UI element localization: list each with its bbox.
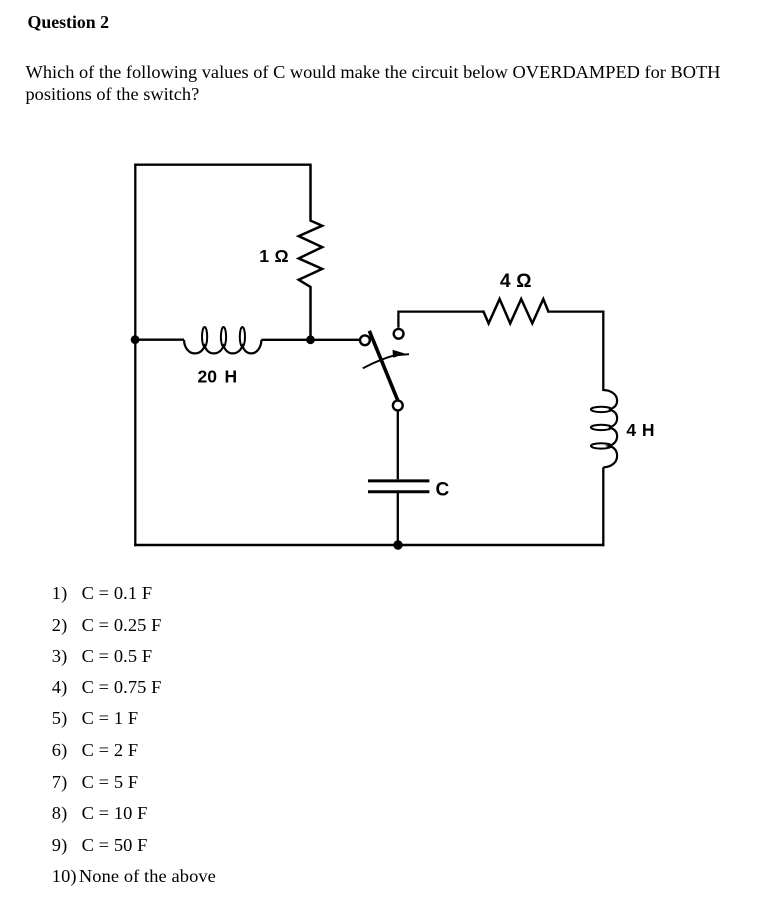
svg-text:1: 1 (259, 246, 269, 266)
capacitor C bottom plate (368, 490, 429, 493)
wire from switch lower throw to capacitor (397, 410, 399, 479)
node dot left (131, 335, 140, 344)
svg-text:4: 4 (626, 420, 636, 440)
answer option 2 (52, 615, 162, 636)
answer option 9 (52, 835, 148, 856)
answer option 10 (52, 866, 216, 887)
switch SW blade (369, 331, 398, 401)
svg-text:Ω: Ω (275, 246, 289, 266)
answer option 7 (52, 772, 138, 793)
resistor R1 1 ohm vertical: top stub, zigzag, bottom stub (299, 165, 323, 340)
node dot at resistor R1 junction (306, 335, 315, 344)
svg-text:H: H (642, 420, 655, 440)
resistor R2 4 ohm zigzag (482, 299, 549, 323)
question text (26, 61, 721, 105)
switch SW motion arrow head (393, 350, 406, 358)
svg-text:C: C (436, 479, 450, 500)
switch SW pole contact circle left (360, 335, 370, 345)
wire top-right horizontal right part (549, 310, 604, 312)
svg-text:20: 20 (198, 367, 218, 387)
svg-text:Ω: Ω (516, 271, 531, 292)
answer option 4 (52, 677, 162, 698)
inductor L2 4 H loop 1 (591, 407, 612, 412)
inductor L2 4 H loop 2 (591, 425, 612, 430)
inductor L1 20 H coil scallops (184, 340, 261, 354)
wire top (134, 164, 311, 166)
inductor L2 4 H coil scallops (603, 390, 617, 467)
capacitor C top plate (368, 479, 429, 482)
wire right upper (602, 310, 604, 391)
inductor L1 20 H loop 3 (240, 327, 245, 347)
svg-text:H: H (225, 367, 238, 387)
answer option 8 (52, 803, 148, 824)
wire left (134, 164, 136, 547)
wire middle left segment (134, 339, 184, 341)
switch SW motion arrow arc (363, 354, 409, 368)
switch SW throw contact circle upper right (394, 329, 404, 339)
answer option 5 (52, 708, 138, 729)
wire bottom (134, 544, 604, 546)
switch SW throw contact circle lower (393, 401, 403, 411)
svg-text:4: 4 (500, 271, 511, 292)
wire from switch upper throw to resistor R2 (398, 312, 482, 328)
wire middle right segment to switch pole (261, 339, 359, 341)
answer option 6 (52, 740, 138, 761)
wire right lower (602, 467, 604, 546)
node dot at capacitor bottom junction (393, 540, 402, 549)
answer option 1 (52, 583, 152, 604)
inductor L1 20 H loop 2 (221, 327, 226, 347)
answer option 3 (52, 646, 152, 667)
inductor L2 4 H loop 3 (591, 443, 612, 448)
inductor L1 20 H loop 1 (202, 327, 207, 347)
title (28, 12, 110, 33)
wire from capacitor to bottom wire (397, 493, 399, 545)
